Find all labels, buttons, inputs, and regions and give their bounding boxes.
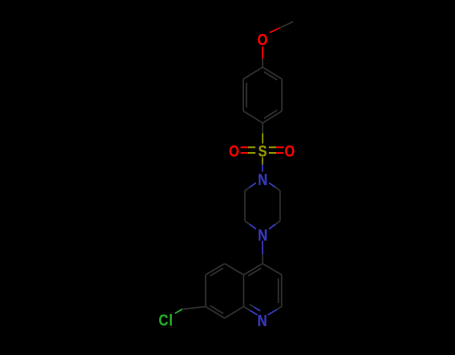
S=O left line (far half) [248,146,255,148]
benzene LR-UR [281,79,283,111]
S=O right line (far half) [276,152,283,154]
S=O right line (near half) [269,146,276,148]
quin C4a-C8a [243,275,245,307]
bond Nb-C4 quinoline (near half) [262,241,264,254]
bond O-CH3 (near half) [270,28,280,33]
benzene LL-B [243,111,262,123]
svg-text:N: N [258,313,268,330]
svg-text:N: N [258,172,268,189]
S=O left line (near half) [241,152,248,154]
quin C3-C2 [281,275,283,307]
quin N1-C8a main (far half) [244,307,250,311]
benzene double inner B-LR [264,110,277,118]
pip Nt-ULc (near half) [249,183,256,188]
pip Nb-LRc (far half) [276,221,280,224]
quin N1=C8a inner line (blue half) [254,307,260,311]
bond Cl-C7 (carbon half) [182,307,205,310]
svg-text:O: O [229,143,239,160]
svg-text:O: O [257,32,267,49]
S=O left line (near half) [241,146,248,148]
quin C6-C5 [206,264,225,275]
pip Nb-LRc (near half) [269,224,276,229]
quin C7-C6 [205,275,207,307]
S=O left line (far half) [248,152,255,154]
benzene T-UL [243,67,262,79]
quin double inner C3-C2 [277,278,279,303]
pip ULc-LLc [244,191,246,221]
benzene double inner UR-T [264,72,277,80]
quin C2-N1 (near half) [277,307,282,310]
pip URc-LRc [279,191,281,221]
bond O-C1 (near half) [262,47,264,59]
bond O-CH3 (far half) [280,22,294,28]
benzene B-LR [263,111,282,123]
S=O right line (near half) [269,152,276,154]
bond Cl-C7 (green half) [175,309,182,313]
S=O right line (far half) [276,146,283,148]
quin C2-N1 (far half) [268,310,277,316]
quin C4a-C4 [244,264,263,275]
svg-text:O: O [285,143,295,160]
quin double inner C6-C5 [210,268,223,276]
pip Nb-LLc (far half) [245,221,249,224]
quin double inner C4a-C4 [248,268,261,276]
quin double inner C8-C7 [210,306,223,314]
svg-text:Cl: Cl [159,312,174,329]
svg-text:S: S [258,143,267,160]
benzene double inner UL-LL [246,83,248,108]
bond Nb-C4 quinoline (far half) [262,254,264,264]
quin C5-C4a [225,264,244,275]
quin C8a-C8 [225,307,244,319]
bond S-N1 (near half) [262,157,264,164]
quin C8-C7 [206,307,225,319]
bond C4b-S (near half) [262,123,264,133]
bond S-N1 (far half) [262,165,264,172]
svg-text:N: N [258,227,268,244]
pip Nt-URc (far half) [276,188,280,191]
bond C4b-S (far half) [262,133,264,143]
quin N1-C8a main (near half) [250,310,258,315]
benzene UL-LL [242,79,244,111]
benzene UR-T [263,67,282,79]
bond O-C1 (far half) [262,59,264,67]
quin C4-C3 [263,264,282,275]
pip Nb-LLc (near half) [249,224,256,229]
pip Nt-URc (near half) [269,183,276,188]
quin N1=C8a inner line (carbon half) [250,304,255,307]
pip Nt-ULc (far half) [245,188,249,191]
